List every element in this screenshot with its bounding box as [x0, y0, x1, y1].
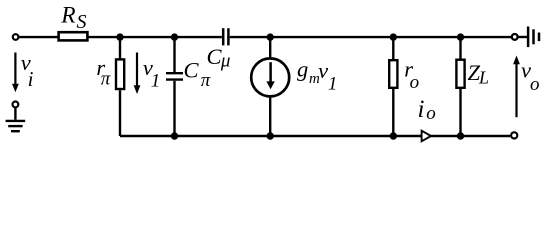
wire terminal to ground right — [518, 36, 527, 38]
resistor RS — [59, 32, 88, 40]
wire C_pi top — [173, 37, 175, 72]
svg-text:1: 1 — [151, 71, 161, 92]
arrow v_i — [12, 53, 19, 93]
junction dot r_o top — [390, 33, 397, 40]
arrow v1 — [134, 53, 141, 95]
capacitor C_pi — [166, 73, 183, 79]
svg-text:L: L — [478, 67, 489, 87]
ground left — [6, 108, 26, 132]
junction dot C_pi top — [171, 33, 178, 40]
svg-text:g: g — [297, 57, 308, 82]
wire RS to node B — [87, 36, 221, 38]
svg-text:v: v — [318, 58, 328, 83]
svg-text:o: o — [426, 103, 436, 124]
svg-text:i: i — [418, 96, 425, 123]
wire r_o bottom — [392, 89, 394, 136]
impedance Z_L — [456, 60, 464, 88]
svg-text:i: i — [28, 67, 34, 91]
wire r_o top — [392, 37, 394, 60]
junction dot Z_L top — [457, 33, 464, 40]
svg-text:π: π — [101, 69, 111, 90]
wire Z_L top — [459, 37, 461, 59]
wire bottom rail — [120, 135, 510, 137]
wire source top — [269, 37, 271, 58]
svg-text:μ: μ — [220, 50, 231, 71]
junction dot node B (r_pi top) — [116, 33, 123, 40]
top-right terminal — [512, 34, 518, 40]
ground right — [528, 27, 539, 48]
ground left terminal — [13, 102, 19, 108]
wire r_pi bottom — [119, 90, 121, 136]
junction dot r_o bottom — [390, 132, 397, 139]
wire source bottom — [269, 97, 271, 136]
wire Z_L bottom — [459, 88, 461, 136]
svg-text:o: o — [530, 74, 540, 95]
input terminal — [13, 34, 19, 40]
junction dot C_pi bottom — [171, 132, 178, 139]
resistor r_o — [389, 60, 397, 88]
output terminal — [511, 132, 517, 138]
wire input to RS — [19, 36, 58, 38]
svg-text:R: R — [60, 2, 75, 28]
svg-text:1: 1 — [328, 74, 338, 95]
junction dot source bottom — [267, 132, 274, 139]
junction dot Z_L bottom — [457, 132, 464, 139]
current source gmv1 — [251, 58, 289, 96]
junction dot source top — [267, 33, 274, 40]
svg-text:o: o — [410, 72, 420, 93]
resistor r_pi — [116, 59, 124, 89]
wire C_mu to top-right terminal — [230, 36, 511, 38]
arrow i_o open head — [422, 131, 431, 142]
wire r_pi top — [119, 37, 121, 59]
wire C_pi bottom — [173, 81, 175, 136]
svg-text:π: π — [201, 70, 211, 91]
arrow v_o — [513, 56, 520, 118]
svg-text:S: S — [77, 11, 87, 33]
svg-text:C: C — [184, 57, 200, 82]
capacitor C_mu — [223, 28, 228, 45]
